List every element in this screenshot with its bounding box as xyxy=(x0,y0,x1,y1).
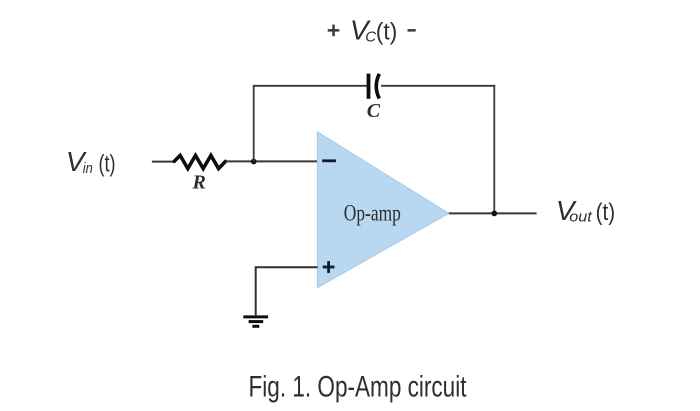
node label Vin(t) xyxy=(66,146,116,177)
label +Vc(t)- plus sign xyxy=(328,25,340,37)
svg-text:(t): (t) xyxy=(376,19,398,46)
svg-text:C: C xyxy=(365,28,376,45)
op-amp U1 triangle xyxy=(317,132,448,288)
node label Vout(t) xyxy=(556,195,615,226)
ground symbol xyxy=(243,317,268,326)
svg-text:out: out xyxy=(569,208,592,225)
svg-text:(t): (t) xyxy=(596,199,616,226)
wire feedback left vertical xyxy=(253,86,255,162)
op-amp U1 inverting input minus sign xyxy=(322,159,336,162)
svg-text:Fig. 1. Op-Amp circuit: Fig. 1. Op-Amp circuit xyxy=(249,371,467,404)
wire ground vertical xyxy=(255,266,257,315)
wire from resistor to inverting input xyxy=(226,160,318,162)
capacitor C right plate (curved) xyxy=(376,74,379,99)
op-amp U1 non-inverting input plus sign xyxy=(323,261,335,273)
wire input left segment xyxy=(152,161,174,163)
svg-text:R: R xyxy=(192,172,206,194)
svg-text:C: C xyxy=(367,100,381,122)
wire feedback top right segment xyxy=(381,85,495,87)
resistor R xyxy=(174,155,225,168)
capacitor C left plate xyxy=(367,74,371,99)
wire output xyxy=(449,212,537,214)
wire feedback top left segment xyxy=(253,85,367,87)
node label Vc(t) xyxy=(350,15,397,46)
svg-text:in: in xyxy=(83,160,93,177)
wire feedback right vertical xyxy=(493,85,495,214)
label +Vc(t)- minus sign xyxy=(408,29,416,32)
node junction dot at inverting input xyxy=(251,159,257,165)
svg-text:(t): (t) xyxy=(99,151,116,178)
wire non-inverting input horizontal xyxy=(255,266,318,268)
node junction dot at output xyxy=(491,211,497,217)
svg-text:Op-amp: Op-amp xyxy=(344,200,401,225)
